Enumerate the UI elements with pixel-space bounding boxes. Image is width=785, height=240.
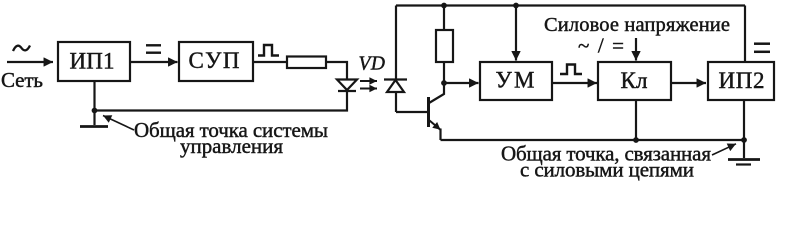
node: pulse symbol after УМ xyxy=(560,65,582,75)
block Кл (switch) xyxy=(598,62,671,100)
svg-text:VD: VD xyxy=(359,54,386,75)
wire: power voltage arrow into Кл top xyxy=(635,38,637,61)
node: label ~ / = xyxy=(578,34,624,58)
wire: top supply rail xyxy=(396,4,745,6)
svg-text:~ / =: ~ / = xyxy=(578,34,624,58)
node: label Общая точка, связанная с силовыми цепями xyxy=(501,142,711,182)
node: Сеть label xyxy=(1,68,43,92)
wire: mains input arrow into ИП1 xyxy=(7,61,53,63)
node: = label between ИП1 and СУП xyxy=(146,44,161,46)
transistor Q1 collector xyxy=(429,83,444,103)
svg-text:с силовыми цепями: с силовыми цепями xyxy=(520,158,694,182)
wire: ИП1 bottom to ground junction xyxy=(93,81,95,125)
node: VD label xyxy=(359,54,386,75)
node: = label at top right xyxy=(754,42,770,45)
wire: photodiode to transistor base xyxy=(396,111,428,113)
photodiode of optocoupler (triangle up) xyxy=(395,6,397,80)
wire: ИП1 to СУП arrow xyxy=(130,61,178,63)
wire: junction to УМ arrow xyxy=(444,82,479,84)
node: junction dot control common xyxy=(92,108,98,114)
svg-text:Силовое напряжение: Силовое напряжение xyxy=(544,14,730,36)
svg-text:ИП1: ИП1 xyxy=(70,49,115,74)
svg-text:СУП: СУП xyxy=(189,48,240,73)
node: optocoupler light arrows xyxy=(360,80,377,82)
wire: LED cathode down and back to control common xyxy=(95,91,348,111)
wire: bottom power common rail xyxy=(441,139,746,141)
node: junction dot collector/resistor xyxy=(441,80,447,86)
wire: rail right end into ИП2 top xyxy=(744,6,746,63)
wire: Кл bottom to power common xyxy=(635,100,637,140)
svg-text:Сеть: Сеть xyxy=(1,68,43,92)
resistor R2 (vertical) xyxy=(443,6,445,31)
wire: ИП2 bottom to power common xyxy=(743,100,745,140)
transistor Q1 emitter with arrow xyxy=(430,121,441,130)
svg-text:УМ: УМ xyxy=(496,68,535,93)
svg-text:управления: управления xyxy=(180,134,283,158)
node: label Общая точка системы управления xyxy=(134,118,328,158)
node: junction dot on rail (resistor branch) xyxy=(441,3,447,9)
node: pulse symbol after СУП xyxy=(258,45,279,56)
wire: resistor to LED anode xyxy=(326,62,347,79)
svg-text:Кл: Кл xyxy=(621,68,648,93)
wire: СУП to resistor xyxy=(253,61,287,63)
block УМ (amplifier) xyxy=(480,62,552,100)
resistor R (ballast, horizontal) xyxy=(287,57,326,69)
svg-text:ИП2: ИП2 xyxy=(719,68,765,93)
wire: Кл to ИП2 arrow xyxy=(671,82,706,84)
transistor Q1 base bar xyxy=(427,97,430,127)
ground (control system common) xyxy=(80,125,108,128)
wire: rail branch arrow into УМ top xyxy=(513,3,519,9)
node: label Силовое напряжение xyxy=(544,14,730,36)
ground (power common) xyxy=(743,140,745,158)
wire: УМ to Кл arrow xyxy=(552,82,597,84)
block ИП2 (power supply 2) xyxy=(708,62,774,100)
block СУП xyxy=(179,42,253,81)
node: annotation arrow to control common xyxy=(103,116,134,131)
node: annotation arrow to power common xyxy=(712,144,736,155)
LED of optocoupler VD (triangle down) xyxy=(337,80,357,91)
block ИП1 (power supply 1) xyxy=(58,42,130,81)
node: AC mains symbol ~ xyxy=(13,46,30,52)
